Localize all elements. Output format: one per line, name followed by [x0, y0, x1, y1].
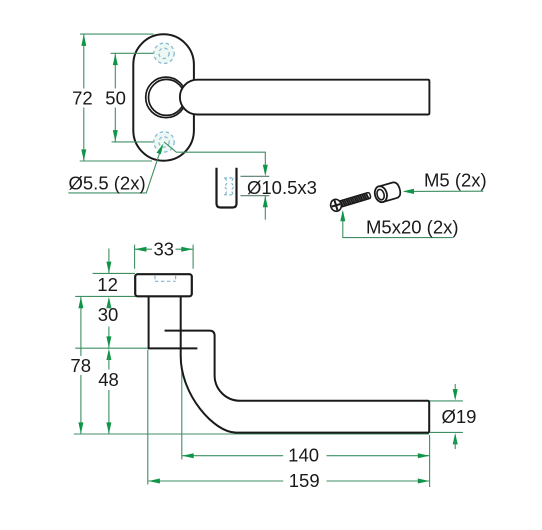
dimension Ø10.5 bottom arrow [264, 196, 266, 220]
svg-text:12: 12 [97, 274, 118, 295]
hidden screw hole (dashed blue) in rose side [155, 276, 176, 282]
svg-text:140: 140 [288, 445, 319, 466]
dimension 33 [135, 248, 152, 250]
joint line lower [148, 347, 198, 349]
joint line upper [165, 330, 181, 332]
rosette side view [135, 274, 192, 296]
screw M5x20 [329, 189, 372, 212]
wire: ext line neck end (30/48) [75, 347, 147, 349]
wire: extension line rose top (72 dim) [80, 33, 154, 35]
wire: ext line rose top (12 dim) [93, 272, 135, 274]
dimension 30 [108, 327, 110, 349]
boss inner circle [149, 79, 185, 115]
screw hole top (dashed) [154, 43, 174, 63]
boss outer circle [146, 77, 187, 118]
wire: extension line top hole (50 dim) [111, 52, 164, 54]
svg-text:Ø10.5x3: Ø10.5x3 [247, 177, 317, 198]
wire: extension lines of Ø10.5 [241, 175, 270, 177]
dimension 48 [106, 349, 111, 361]
wire: extension line rose bottom (72 dim) [80, 160, 152, 162]
spindle hidden profile (dashed blue) [224, 178, 235, 195]
svg-text:72: 72 [72, 88, 93, 109]
leader M5x20 [343, 212, 453, 238]
dimension 50 line [114, 53, 116, 88]
wire: ext line rose bottom (12/30/78) [75, 295, 148, 297]
leader from bottom hole to section [164, 142, 265, 168]
svg-text:48: 48 [98, 369, 119, 390]
svg-text:50: 50 [105, 88, 126, 109]
wire: ext line grip bottom (78/48) [74, 433, 429, 435]
svg-text:30: 30 [98, 304, 119, 325]
screw hole bottom (dashed) [154, 132, 174, 152]
neck left edge [148, 296, 150, 348]
neck right edge [180, 296, 182, 330]
grip (bend + horizontal bar) [181, 331, 430, 433]
dimension 78 [80, 296, 82, 356]
wire: ext line grip end down (140/159) [429, 435, 431, 487]
svg-text:Ø5.5 (2x): Ø5.5 (2x) [69, 172, 146, 193]
barrel nut M5 [373, 181, 402, 204]
leader to hole for label Ø5.5 [68, 146, 162, 193]
leader M5 [405, 190, 483, 192]
svg-text:Ø19: Ø19 [442, 406, 477, 427]
svg-text:159: 159 [289, 470, 320, 491]
svg-text:78: 78 [70, 355, 91, 376]
lever bar (top view) [180, 80, 429, 115]
rosette (oval rose, front view) [133, 34, 194, 160]
dimension 12 [108, 249, 110, 274]
wire: extension line bottom hole (50 dim) [112, 141, 164, 143]
svg-text:M5x20 (2x): M5x20 (2x) [366, 217, 459, 238]
svg-text:33: 33 [154, 239, 175, 260]
dimension 72 line [83, 34, 85, 88]
wire: extension lines 33 dim [134, 245, 136, 269]
dimension 159 [148, 480, 283, 482]
dimension 140 [182, 455, 283, 457]
wire: ext line neck right down (140 dim) [181, 356, 183, 460]
U-bracket section [217, 168, 237, 208]
svg-text:M5 (2x): M5 (2x) [424, 170, 487, 191]
dimension Ø19 [430, 400, 463, 402]
wire: ext line neck left down (159 dim) [147, 350, 149, 485]
